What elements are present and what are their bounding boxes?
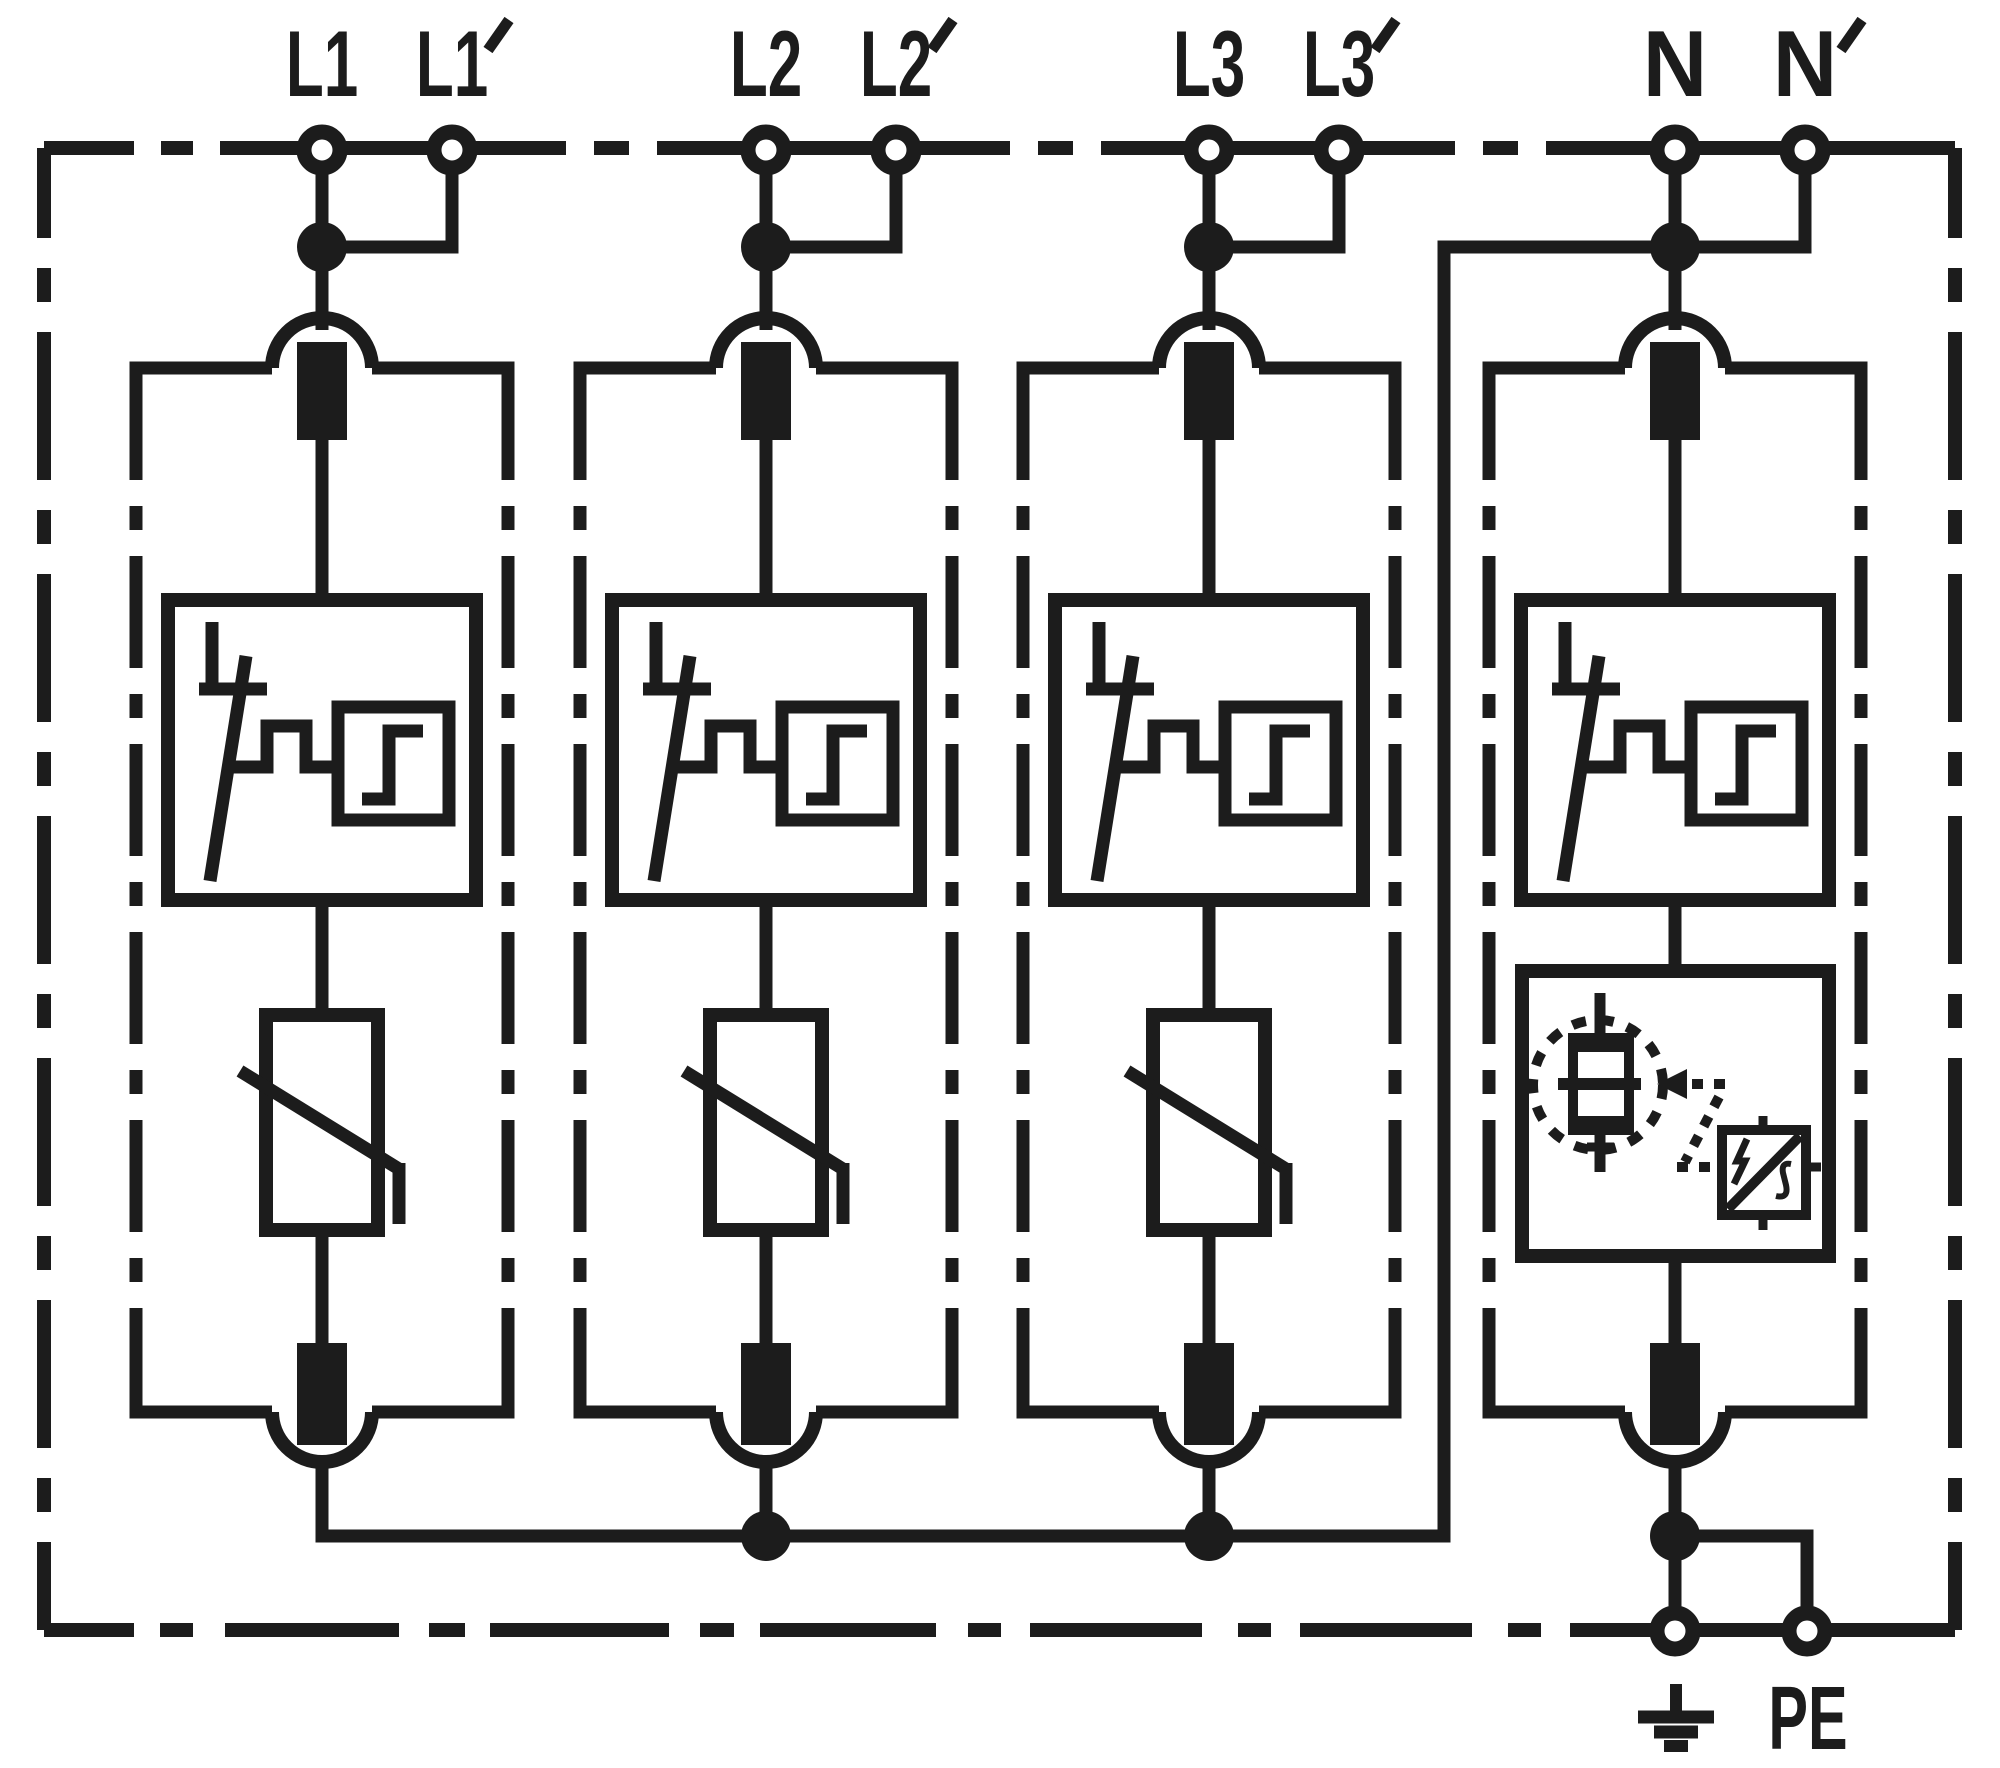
wire disconnector to varistor (L3) <box>1203 900 1216 1015</box>
svg-text:N: N <box>1773 12 1837 117</box>
ground symbol <box>1670 1684 1682 1717</box>
wire top plug to disconnector (L1) <box>316 440 329 600</box>
terminal PE' <box>1789 1613 1825 1649</box>
svg-text:L1: L1 <box>286 11 358 116</box>
terminal PE (ground side) <box>1657 1613 1693 1649</box>
terminal L3&#180; <box>1321 132 1357 168</box>
wire varistor to bottom plug (L2) <box>760 1230 773 1350</box>
wire PE junction to PE' terminal <box>1675 1536 1807 1609</box>
junction node L2 <box>741 222 791 272</box>
terminal N <box>1657 132 1693 168</box>
wire L3 terminal to junction <box>1203 160 1216 247</box>
outer enclosure border left (dash-dot) <box>37 148 51 1630</box>
wire L1 terminal to junction <box>316 160 329 247</box>
plug-in connector bottom (N) <box>1625 1412 1725 1462</box>
wire top plug to disconnector (L2) <box>760 440 773 600</box>
varistor (L3) <box>1153 1015 1265 1230</box>
terminal L2&#180; <box>878 132 914 168</box>
thermal disconnector box (L3) <box>1055 600 1363 900</box>
thermal disconnector box (L1) <box>168 600 476 900</box>
disconnector switch icon (L3) <box>1093 622 1106 689</box>
plug-in connector bottom (L1) <box>272 1412 372 1462</box>
svg-text:N: N <box>1643 12 1707 117</box>
disconnector switch icon (N) <box>1559 622 1572 689</box>
junction bus/L2 <box>741 1511 791 1561</box>
spark-gap unit box (N) <box>1522 971 1829 1256</box>
terminal L1 <box>304 132 340 168</box>
junction node N <box>1650 222 1700 272</box>
terminal N&#180; <box>1787 132 1823 168</box>
wire varistor to bottom plug (L1) <box>316 1230 329 1350</box>
thermal disconnector box (N) <box>1521 600 1829 900</box>
svg-text:L3: L3 <box>1173 11 1245 116</box>
varistor (L2) <box>710 1015 822 1230</box>
wire bottom plug to PE bus (L3) <box>1203 1460 1216 1540</box>
junction node L3 <box>1184 222 1234 272</box>
svg-text:L2: L2 <box>730 11 802 116</box>
svg-text:L1: L1 <box>416 11 488 116</box>
wire junction to top plug (L2) <box>760 247 773 330</box>
terminal L2 <box>748 132 784 168</box>
terminal L3 <box>1191 132 1227 168</box>
plug-in connector top (N) <box>1625 318 1725 368</box>
junction node PE <box>1650 1511 1700 1561</box>
wire N terminal to junction <box>1669 160 1682 247</box>
spark-gap electrode symbol <box>1595 993 1606 1040</box>
plug-in connector bottom (L3) <box>1159 1412 1259 1462</box>
trigger device box <box>1722 1130 1806 1215</box>
wire bottom plug to PE bus (L2) <box>760 1460 773 1540</box>
wire L2 terminal to junction <box>760 160 773 247</box>
svg-text:PE: PE <box>1768 1669 1847 1768</box>
wire disconnector to spark-gap unit (N) <box>1669 900 1682 971</box>
wire disconnector to varistor (L2) <box>760 900 773 1015</box>
plug-in connector top (L2) <box>716 318 816 368</box>
wire PE junction to PE terminal <box>1669 1536 1682 1609</box>
wire L1&#180; terminal to junction <box>332 160 452 247</box>
wire disconnector to varistor (L1) <box>316 900 329 1015</box>
outer enclosure border bottom (dash-dot) <box>44 1623 134 1637</box>
module L1 enclosure (dashed) <box>130 362 273 375</box>
wire junction to top plug (N) <box>1669 247 1682 330</box>
wire L3&#180; terminal to junction <box>1219 160 1339 247</box>
outer enclosure border top (dash-dot) <box>44 141 134 155</box>
disconnector switch icon (L1) <box>206 622 219 689</box>
disconnector switch icon (L2) <box>650 622 663 689</box>
wire spark-gap unit to bottom plug (N) <box>1669 1256 1682 1350</box>
wire junction to top plug (L3) <box>1203 247 1216 330</box>
trigger arrow (dashed) <box>1657 1069 1687 1099</box>
PE bus wire (varistor commons to N node) <box>322 247 1675 1536</box>
module L3 enclosure (dashed) <box>1017 362 1160 375</box>
junction node L1 <box>297 222 347 272</box>
wire top plug to disconnector (N) <box>1669 440 1682 600</box>
svg-text:L3: L3 <box>1303 11 1375 116</box>
outer enclosure border right (dash-dot) <box>1948 148 1962 1630</box>
wire N bottom plug to PE junction <box>1669 1460 1682 1536</box>
varistor (L1) <box>266 1015 378 1230</box>
wire L2&#180; terminal to junction <box>776 160 896 247</box>
plug-in connector bottom (L2) <box>716 1412 816 1462</box>
wire junction to top plug (L1) <box>316 247 329 330</box>
spark-gap electrode symbol (dashed circle) <box>1533 1020 1663 1150</box>
thermal disconnector box (L2) <box>612 600 920 900</box>
wire varistor to bottom plug (L3) <box>1203 1230 1216 1350</box>
plug-in connector top (L3) <box>1159 318 1259 368</box>
svg-text:L2: L2 <box>860 11 932 116</box>
junction bus/L3 <box>1184 1511 1234 1561</box>
module N enclosure (dashed) <box>1483 362 1626 375</box>
wire top plug to disconnector (L3) <box>1203 440 1216 600</box>
wire N&#180; terminal to junction <box>1685 160 1805 247</box>
plug-in connector top (L1) <box>272 318 372 368</box>
module L2 enclosure (dashed) <box>574 362 717 375</box>
wire bottom plug to PE bus (L1) <box>316 1460 329 1540</box>
terminal L1&#180; <box>434 132 470 168</box>
